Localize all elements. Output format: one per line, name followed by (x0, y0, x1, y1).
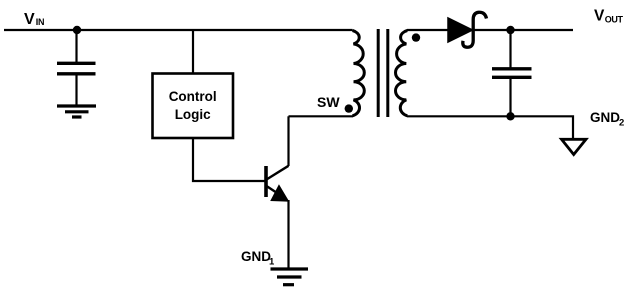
node SW phase dot (345, 104, 353, 112)
node output junction dot bottom (506, 112, 514, 120)
transformer core (377, 29, 380, 117)
ground GND1 (271, 269, 309, 285)
wire diode to VOUT (473, 29, 574, 31)
svg-text:Control: Control (169, 89, 217, 104)
svg-text:2: 2 (619, 118, 624, 129)
op-amp U1 Control Logic box (153, 74, 234, 139)
wire input cap top lead (75, 30, 77, 62)
wire input cap bottom lead (75, 76, 77, 105)
diode D1 (Schottky) (448, 18, 473, 42)
transistor Q1 (266, 166, 289, 201)
ground GND2 (triangle) (562, 139, 587, 154)
svg-text:V: V (24, 11, 35, 28)
node secondary phase dot (412, 33, 420, 41)
node output junction dot top (506, 26, 514, 34)
node SW label (317, 94, 340, 110)
wire secondary to diode (407, 29, 448, 31)
wire secondary bottom to GND2 (407, 116, 573, 138)
wire output cap bottom lead (509, 79, 511, 116)
svg-text:GND: GND (590, 110, 620, 125)
node GND2 label (590, 110, 624, 129)
svg-text:Logic: Logic (175, 107, 211, 122)
wire control logic top lead (192, 30, 194, 74)
svg-text:V: V (594, 7, 605, 24)
node GND1 label (241, 249, 275, 268)
svg-text:GND: GND (241, 249, 271, 264)
capacitor C_in (57, 62, 96, 65)
ground (input) (57, 106, 96, 117)
wire control logic to base (193, 138, 265, 181)
wire collector to SW (287, 116, 289, 166)
wire output cap top lead (509, 30, 511, 68)
svg-text:SW: SW (317, 94, 340, 110)
wire emitter to GND1 (287, 200, 289, 268)
inductor T1 secondary winding (395, 31, 407, 116)
wire SW node to primary (289, 115, 354, 117)
inductor T1 primary winding (353, 31, 365, 116)
node VIN junction dot (73, 26, 81, 34)
wire VIN top rail (4, 29, 353, 31)
svg-text:OUT: OUT (605, 15, 624, 25)
svg-text:1: 1 (269, 257, 275, 268)
node VIN label (24, 11, 44, 28)
node VOUT label (594, 7, 624, 24)
capacitor C_out (492, 67, 532, 70)
svg-text:IN: IN (36, 17, 45, 27)
